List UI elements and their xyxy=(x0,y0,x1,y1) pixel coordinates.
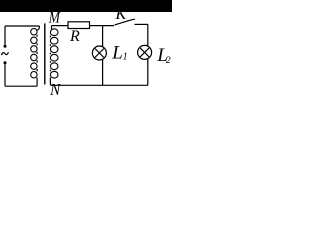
svg-text:1: 1 xyxy=(123,51,128,62)
svg-text:L: L xyxy=(111,42,123,63)
svg-text:N: N xyxy=(49,82,61,100)
svg-text:2: 2 xyxy=(166,56,171,66)
svg-text:R: R xyxy=(69,28,80,45)
svg-text:M: M xyxy=(48,10,61,27)
